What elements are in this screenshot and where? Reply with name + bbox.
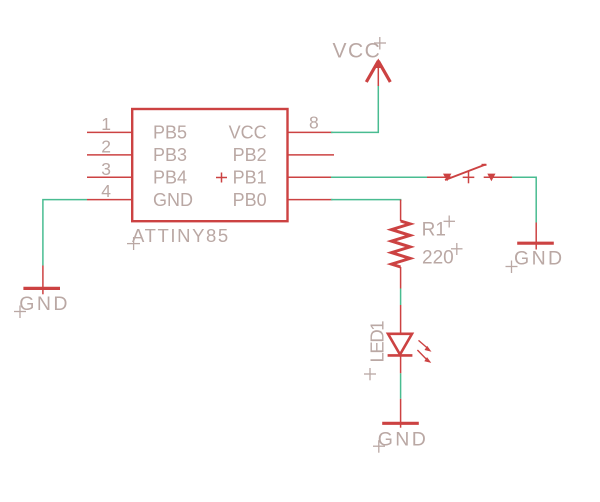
pin 6 (PB1) xyxy=(288,176,333,178)
pin label PB4 xyxy=(153,168,187,188)
IC name origin cross xyxy=(127,237,140,250)
VCC supply symbol xyxy=(366,59,390,87)
svg-text:GND: GND xyxy=(378,428,429,450)
GND label (left) xyxy=(19,293,70,315)
pin label VCC (IC) xyxy=(229,123,267,143)
GND symbol (right, switch) xyxy=(517,223,554,250)
svg-text:ATTINY85: ATTINY85 xyxy=(132,225,230,246)
pin 3 (PB4) xyxy=(87,176,132,178)
GND symbol (bottom, LED) xyxy=(382,399,419,428)
pin label PB3 xyxy=(153,145,187,165)
GND label (bottom) xyxy=(378,428,429,450)
R1 value origin cross xyxy=(451,243,463,255)
wire net: PB0 to resistor R1 xyxy=(331,200,401,201)
R1 name label xyxy=(422,220,446,241)
pin 1 (PB5) xyxy=(87,131,132,133)
pin number 2 xyxy=(101,137,111,157)
svg-text:GND: GND xyxy=(19,293,70,315)
pin 5 (PB0) xyxy=(288,199,333,201)
svg-text:LED1: LED1 xyxy=(367,321,388,363)
pin label PB1 xyxy=(233,168,267,188)
pin number 1 xyxy=(101,114,111,134)
pin label PB2 xyxy=(233,145,267,165)
pin number 3 xyxy=(101,159,111,179)
resistor R1 220 xyxy=(392,200,411,289)
svg-text:3: 3 xyxy=(101,159,111,179)
LED1 name origin cross xyxy=(364,368,376,380)
pin number 4 xyxy=(101,181,111,201)
svg-text:4: 4 xyxy=(101,181,111,201)
pin 8 (VCC) xyxy=(288,131,333,133)
pin label PB0 xyxy=(233,190,267,210)
pin label PB5 xyxy=(153,123,187,143)
svg-text:PB0: PB0 xyxy=(233,190,267,210)
wire net: pin4 to left GND xyxy=(43,200,87,266)
GND label origin cross (right) xyxy=(506,261,518,274)
svg-text:GND: GND xyxy=(514,248,565,270)
wire net: resistor to LED xyxy=(400,289,402,306)
VCC net label xyxy=(333,40,382,63)
svg-text:PB3: PB3 xyxy=(153,145,187,165)
R1 value label 220 xyxy=(422,248,454,269)
svg-text:2: 2 xyxy=(101,137,111,157)
wire net: LED to bottom GND xyxy=(400,373,402,399)
pin label GND (IC) xyxy=(153,190,193,210)
GND label origin cross (bottom) xyxy=(373,440,385,453)
svg-text:PB4: PB4 xyxy=(153,168,187,188)
GND label (right) xyxy=(514,248,565,270)
IC origin cross (red) xyxy=(216,173,227,183)
R1 name origin cross xyxy=(444,216,456,228)
svg-text:220: 220 xyxy=(422,248,454,269)
svg-text:VCC: VCC xyxy=(229,123,267,143)
svg-text:PB1: PB1 xyxy=(233,168,267,188)
wire net VCC: pin8 to VCC symbol xyxy=(331,86,378,133)
svg-text:1: 1 xyxy=(101,114,111,134)
pin 2 (PB3) xyxy=(87,154,132,156)
switch S1 xyxy=(427,165,512,184)
pin 7 (PB2) xyxy=(288,154,335,156)
svg-text:R1: R1 xyxy=(422,220,446,241)
svg-text:GND: GND xyxy=(153,190,193,210)
wire net: switch to right GND xyxy=(512,177,536,222)
GND label origin cross (left) xyxy=(14,306,26,319)
svg-text:PB5: PB5 xyxy=(153,123,187,143)
wire net: PB1 to switch xyxy=(331,176,427,178)
LED LED1 xyxy=(388,305,432,373)
svg-text:8: 8 xyxy=(309,113,319,133)
LED1 name label (rotated) xyxy=(367,321,388,363)
IC U1 body ATTINY85 xyxy=(132,109,287,221)
VCC label origin cross xyxy=(374,37,386,50)
pin number 8 xyxy=(309,113,319,133)
GND symbol (left) xyxy=(23,266,60,295)
IC name label ATTINY85 xyxy=(132,225,230,246)
pin 4 (GND) xyxy=(87,199,132,201)
svg-text:PB2: PB2 xyxy=(233,145,267,165)
